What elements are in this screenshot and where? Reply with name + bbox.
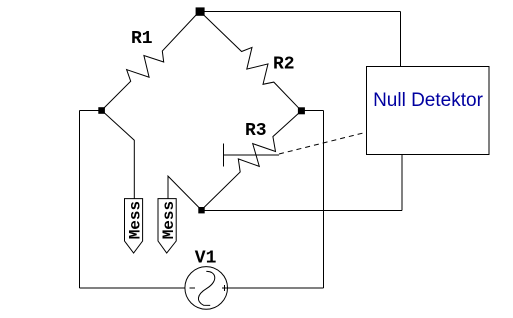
svg-text:R3: R3: [245, 121, 267, 141]
svg-text:Null Detektor: Null Detektor: [373, 90, 483, 111]
node: left bridge junction: [98, 107, 105, 114]
resistor R1 (upper-left bridge arm, zigzag): [102, 11, 200, 110]
wire: top node to Null Detektor top (horizontal): [200, 11, 401, 13]
wire: vertical down into Null Detektor top: [400, 12, 402, 67]
wire: bottom node to right (horizontal): [201, 209, 402, 211]
wire: left node to Mess probe 1 (diagonal then vertical): [102, 110, 135, 198]
svg-text:Mess: Mess: [160, 201, 178, 239]
Null Detektor box U1: [367, 67, 490, 155]
svg-text:R1: R1: [131, 29, 153, 49]
source V1 sine curve: [198, 271, 214, 305]
resistor R3 (lower-right bridge arm, zigzag, variable): [201, 111, 301, 210]
node: right bridge junction: [298, 107, 305, 114]
R3 wiper arrow (T-bar and horizontal line through zigzag): [223, 144, 225, 167]
source V1 circle: [185, 267, 228, 310]
node: bottom bridge junction: [198, 207, 204, 213]
resistor R2 (upper-right bridge arm, zigzag): [200, 11, 302, 111]
wire: bottom node to Mess probe 2 (diagonal then vertical): [168, 176, 201, 210]
dashed control link from R3 wiper to Null Detektor: [279, 132, 366, 154]
wire: Null Detektor bottom down to bridge output level: [401, 155, 403, 211]
wire: left node to V1 minus (left then down then right): [80, 110, 102, 112]
source V1 plus sign: [222, 287, 228, 289]
source V1 minus sign: [189, 287, 195, 289]
node: top bridge junction: [196, 7, 205, 15]
svg-text:R2: R2: [273, 55, 295, 75]
wire: right node to V1 plus (right then down then left): [301, 109, 323, 111]
probe Mess 1 (pentagon flag): [125, 199, 143, 253]
probe Mess 2 (pentagon flag): [158, 199, 176, 253]
svg-text:V1: V1: [195, 248, 217, 268]
svg-text:Mess: Mess: [127, 201, 145, 239]
